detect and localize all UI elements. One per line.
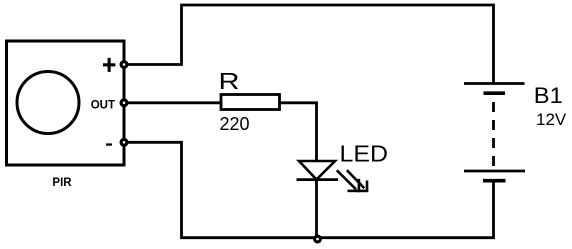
- node LED to bottom rail junction: [315, 236, 321, 242]
- wire top rail from PIR + terminal to battery positive: [124, 5, 494, 83]
- label - (PIR negative pin): [106, 143, 112, 145]
- node - terminal: [121, 139, 127, 145]
- battery B1 positive long plate: [464, 82, 525, 85]
- LED cathode bar: [297, 178, 339, 181]
- svg-text:B1: B1: [534, 83, 563, 108]
- svg-text:PIR: PIR: [52, 177, 72, 189]
- battery B1 positive long plate (bottom cell): [464, 170, 525, 173]
- wire bottom rail from PIR - terminal to battery negative: [124, 142, 494, 237]
- battery B1 negative short plate (bottom cell): [483, 179, 506, 183]
- svg-text:OUT: OUT: [91, 100, 115, 112]
- LED triangle (anode): [299, 161, 335, 180]
- node OUT terminal: [121, 100, 127, 106]
- svg-text:12V: 12V: [536, 110, 567, 129]
- resistor R body: [221, 95, 280, 110]
- node + terminal: [121, 62, 127, 68]
- battery internal cells dashed link: [492, 102, 495, 166]
- svg-text:R: R: [219, 68, 240, 94]
- PIR lens circle: [17, 72, 79, 134]
- wire LED cathode to bottom rail: [315, 180, 318, 239]
- label + (PIR positive pin): [103, 58, 116, 72]
- battery B1 negative short plate (top cell): [484, 91, 506, 95]
- LED arrow 2: [347, 170, 368, 191]
- wire resistor R to LED anode: [280, 103, 317, 161]
- LED arrow 1: [337, 170, 361, 191]
- svg-text:220: 220: [220, 114, 250, 134]
- PIR sensor body: [7, 41, 125, 165]
- svg-text:LED: LED: [340, 141, 389, 167]
- wire OUT terminal to resistor R: [124, 101, 221, 104]
